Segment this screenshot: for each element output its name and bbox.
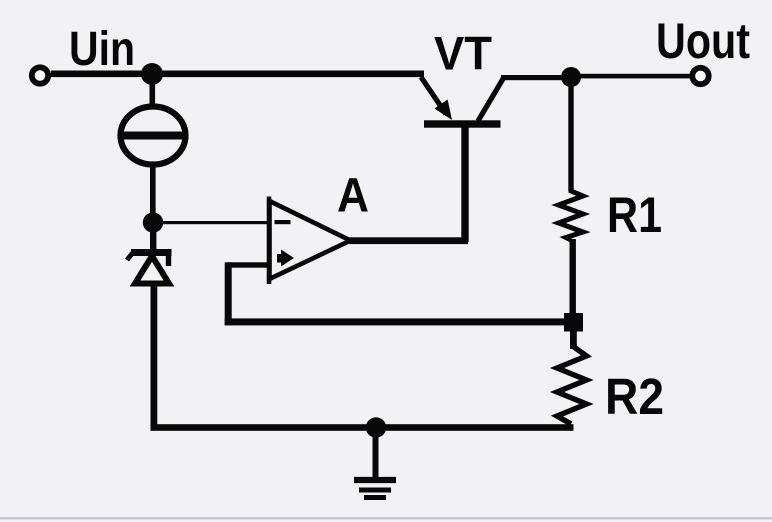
wire feedback vertical	[225, 262, 232, 325]
transistor VT emitter with arrow	[421, 77, 452, 120]
current source I1	[120, 107, 187, 165]
resistor R1	[559, 189, 584, 240]
wire junction to current source	[150, 75, 156, 108]
ground	[354, 432, 396, 498]
op-amp inverting mark	[275, 220, 291, 224]
wire inverting input	[160, 221, 268, 224]
zener diode VD	[127, 253, 172, 284]
svg-text:Uin: Uin	[69, 23, 135, 76]
transistor VT base bar	[424, 120, 501, 127]
node reference (zener top)	[143, 212, 163, 232]
wire node to R2	[570, 330, 577, 349]
node output junction	[561, 67, 581, 87]
svg-text:VT: VT	[434, 27, 492, 80]
wire left vertical to bottom rail	[151, 283, 158, 430]
wire bottom rail	[151, 424, 574, 431]
terminal Uout	[692, 68, 708, 84]
resistor R2	[557, 347, 587, 424]
op-amp non-inverting arrow mark	[281, 250, 294, 267]
terminal Uin	[32, 67, 48, 83]
svg-text:R2: R2	[605, 368, 664, 425]
wire non-inverting input	[228, 262, 268, 267]
wire R1 to feedback node	[570, 239, 576, 316]
node ground junction	[366, 417, 386, 437]
node feedback junction	[564, 313, 583, 332]
wire top rail left	[51, 71, 424, 78]
svg-text:Uout: Uout	[656, 13, 750, 69]
bottom scan line	[0, 517, 772, 519]
wire to Uout terminal	[578, 74, 692, 79]
wire feedback horizontal	[225, 318, 570, 325]
svg-text:R1: R1	[607, 187, 662, 243]
wire op-amp output	[349, 237, 468, 244]
node input junction	[141, 63, 163, 85]
wire base vertical	[461, 124, 468, 242]
op-amp A	[269, 197, 351, 285]
wire collector to output node	[501, 75, 573, 80]
wire current source to node	[150, 163, 156, 215]
wire output node to R1	[568, 84, 573, 191]
transistor VT collector	[478, 78, 504, 121]
wire node to zener	[150, 229, 156, 254]
svg-text:A: A	[337, 170, 369, 223]
